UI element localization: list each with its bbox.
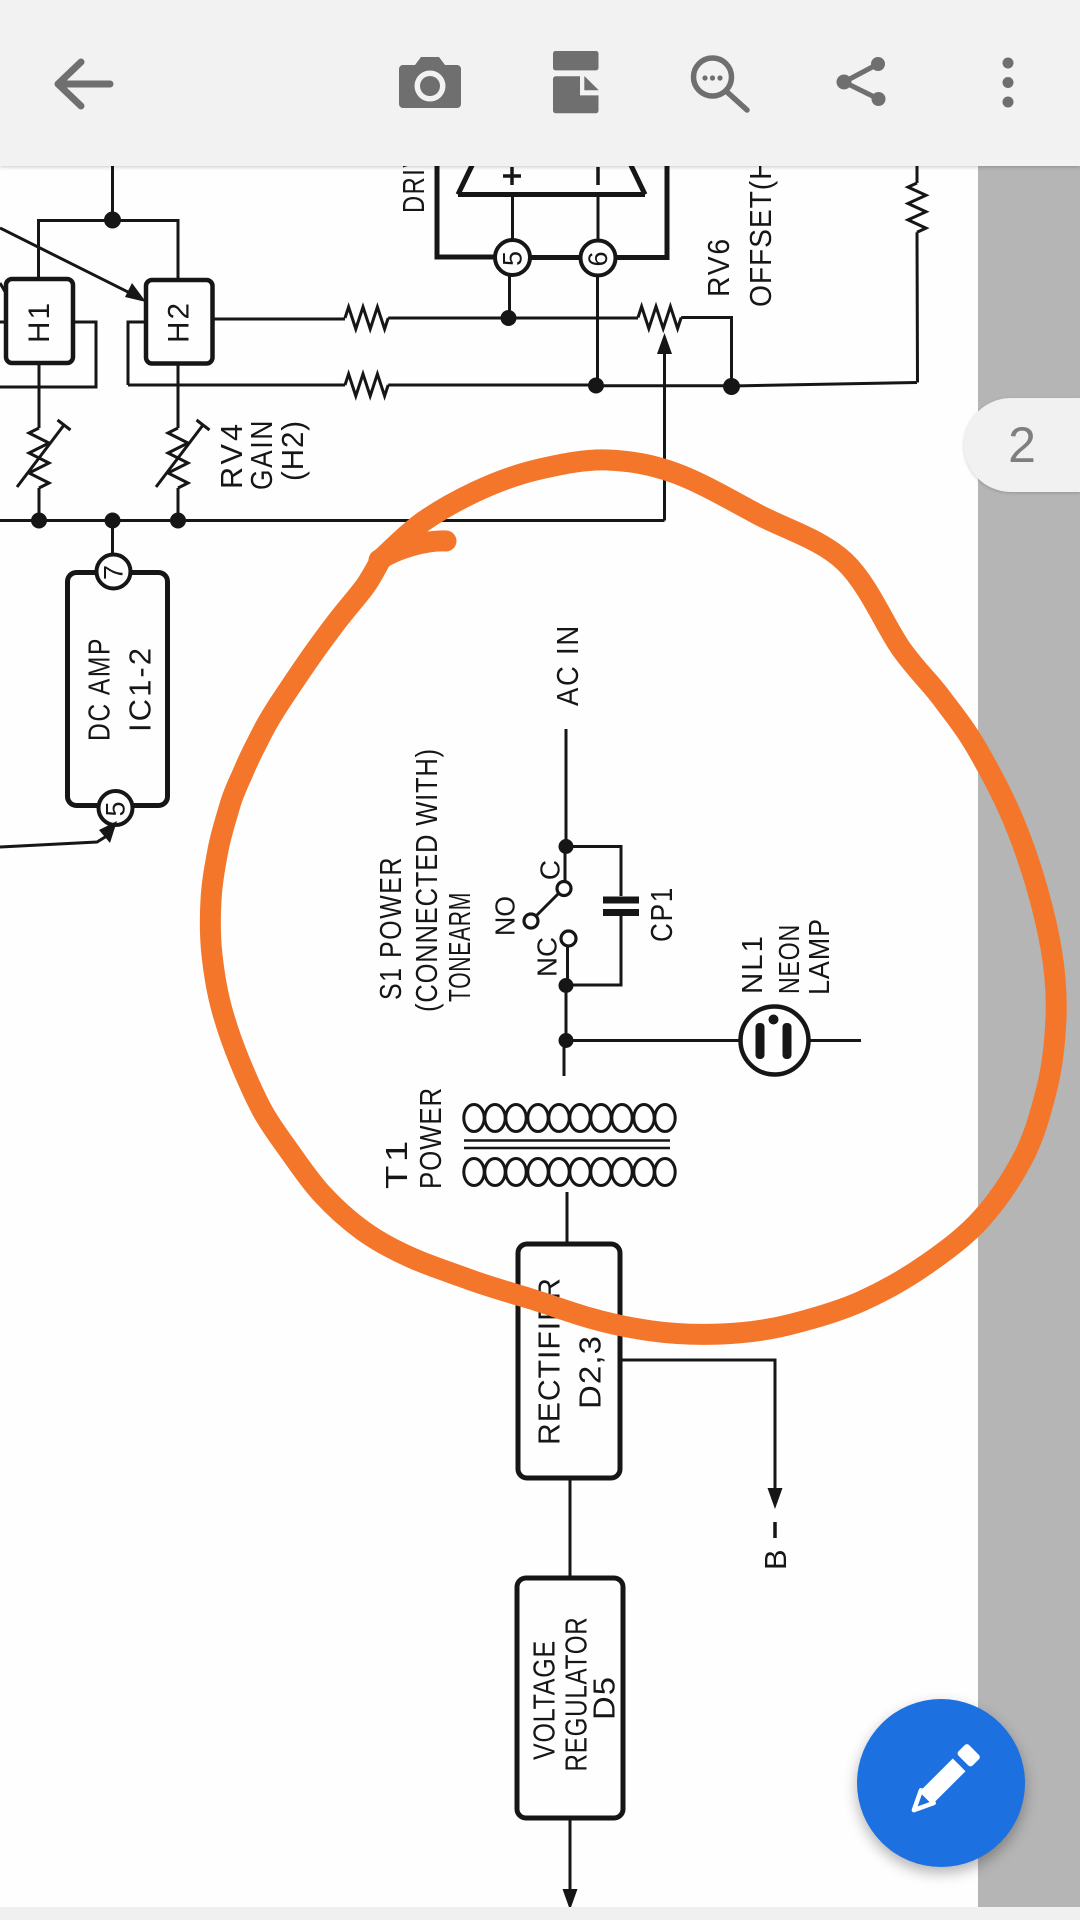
label (H2) (275, 420, 310, 481)
op-amp U1 DC AMP IC1-2 block (68, 573, 168, 806)
svg-text:B: B (758, 1549, 793, 1570)
label LAMP (804, 918, 836, 995)
RV6 wiper arrow (657, 333, 672, 521)
node D junction dot (501, 310, 517, 326)
block H2 (146, 280, 213, 364)
switch S1 NC contact (561, 931, 576, 946)
wire AC IN lead (565, 729, 568, 845)
wire plus input to pin 5 (511, 195, 514, 241)
overflow menu icon (1003, 58, 1014, 108)
svg-text:IC1-2: IC1-2 (123, 646, 158, 732)
bottom navigation strip (0, 1907, 1080, 1920)
wire minus input to pin 6 (597, 195, 600, 241)
svg-text:C: C (535, 860, 566, 880)
svg-text:NC: NC (532, 937, 563, 977)
scrollbar page pill (964, 398, 1080, 492)
neon lamp NL1 (741, 1007, 809, 1075)
wire NC contact to node F (566, 946, 569, 985)
label DRIVE (clipped by toolbar) (396, 133, 431, 213)
transformer T1 secondary coil (464, 1159, 675, 1186)
wire node A to H2 top (113, 221, 179, 281)
svg-text:(H2): (H2) (275, 420, 310, 481)
svg-text:RV6: RV6 (701, 237, 736, 297)
pin 6 circle of drive block (581, 241, 616, 276)
svg-text:OFFSET(H2: OFFSET(H2 (743, 142, 778, 307)
wire H2 bottom to RV4b (177, 364, 180, 429)
svg-text:7: 7 (99, 565, 129, 580)
svg-text:5: 5 (101, 801, 131, 816)
wire H2 left bracket (128, 322, 146, 385)
svg-text:5: 5 (498, 251, 528, 266)
label AC IN (550, 624, 585, 706)
svg-text:NO: NO (490, 896, 521, 936)
label CP 1 (644, 886, 679, 942)
wire lower feedback line (128, 384, 345, 387)
svg-text:H1: H1 (23, 301, 56, 343)
svg-text:NEON: NEON (774, 924, 806, 994)
wire resistor to node B (388, 384, 596, 387)
label NC (532, 937, 563, 977)
arrow fragment pointing to H1 (0, 283, 7, 295)
transformer T1 primary coil (464, 1105, 675, 1132)
wire CP1 bottom to node F (566, 916, 621, 985)
minus input mark (596, 167, 600, 185)
wire node A to H1 top (39, 221, 113, 280)
wire pin6 down to node B (596, 276, 599, 386)
wire H1 bottom to RV4a (38, 363, 41, 428)
label T1 (379, 1137, 414, 1189)
wire transformer to rectifier (566, 1192, 569, 1244)
svg-text:(CONNECTED WITH): (CONNECTED WITH) (409, 748, 444, 1012)
bottom rail wire (0, 519, 665, 522)
drive block border left (437, 150, 495, 257)
label S1 POWER (373, 856, 408, 1000)
junction dot rail x112 (105, 513, 121, 529)
resistor top right vertical (908, 150, 926, 383)
wire H1 right bracket to left edge (0, 322, 96, 387)
wire H2 output line (213, 318, 346, 321)
search icon (694, 58, 748, 110)
svg-text:CP1: CP1 (644, 886, 679, 942)
pin 7 circle (97, 555, 131, 589)
wire node G down to transformer (563, 1041, 566, 1077)
plus input mark (503, 167, 521, 185)
label (CONNECTED WITH) (409, 748, 444, 1012)
node F junction dot (559, 978, 574, 993)
page preview icon (553, 51, 599, 113)
wire node E to capacitor CP1 top (566, 847, 621, 897)
label POWER (413, 1087, 448, 1189)
wire node G to neon lamp (566, 1039, 741, 1042)
junction dot rail x178 (170, 513, 186, 529)
junction dot rail x39 (31, 513, 47, 529)
svg-text:H2: H2 (163, 301, 196, 343)
svg-text:DC AMP: DC AMP (82, 637, 117, 741)
svg-text:VOLTAGE: VOLTAGE (527, 1640, 562, 1760)
drive block border between pins (530, 255, 581, 260)
wire RV4b to bottom rail (177, 488, 180, 521)
switch S1 lever (537, 894, 559, 916)
wire node C to right resistor (732, 383, 918, 387)
resistor in lower line (345, 374, 388, 396)
label C (535, 860, 566, 880)
label NEON (774, 924, 806, 994)
drive block border right (616, 150, 668, 258)
node C junction dot (723, 378, 740, 395)
label B- (758, 1522, 793, 1570)
svg-text:NL1: NL1 (737, 934, 769, 994)
camera icon (399, 57, 461, 108)
label TONEARM (442, 892, 477, 1002)
wire node D to RV6 (509, 317, 639, 320)
wire vertical into node A from top (111, 150, 114, 219)
transformer T1 core (464, 1141, 670, 1149)
voltage regulator D5 block (517, 1578, 623, 1818)
resistor in H2 output line (345, 307, 388, 329)
wire pin5 down to node D (508, 275, 511, 318)
wire RV6 right end down to node C (681, 318, 731, 387)
label RV6 (701, 237, 736, 297)
svg-text:D5: D5 (587, 1676, 622, 1720)
svg-text:LAMP: LAMP (804, 918, 836, 995)
wire with arrow into pin 5 (0, 821, 117, 847)
share icon (844, 64, 879, 99)
switch S1 common contact (557, 882, 571, 896)
switch S1 NO contact (524, 914, 538, 928)
wire rectifier to B- arrow (620, 1360, 783, 1509)
selection arrow pointing to H2 (0, 228, 146, 302)
svg-text:TONEARM: TONEARM (442, 892, 477, 1002)
back arrow icon (58, 62, 110, 106)
label RV 4 (214, 421, 249, 489)
svg-text:GAIN: GAIN (244, 419, 279, 490)
wire regulator output with arrow (563, 1818, 578, 1910)
label NO (490, 896, 521, 936)
wire node B to node C (596, 384, 732, 387)
node E junction dot (559, 839, 574, 854)
wire node F to node G (565, 985, 568, 1040)
label GAIN (244, 419, 279, 490)
wire rectifier to voltage regulator (569, 1478, 572, 1578)
svg-text:T1: T1 (379, 1137, 414, 1189)
variable resistor RV4a zigzag (17, 420, 71, 488)
annotation orange loop (210, 460, 1056, 1335)
svg-text:6: 6 (583, 251, 613, 266)
svg-text:POWER: POWER (413, 1087, 448, 1189)
potentiometer RV6 zigzag (638, 307, 681, 329)
pin 5 circle of DC AMP (99, 791, 133, 825)
node B junction dot (588, 378, 604, 394)
pin 5 circle of drive block (495, 240, 530, 275)
wire H1 left stub (0, 321, 6, 324)
wire rail to pin 7 (111, 521, 114, 555)
label OFFSET (H2) (743, 142, 778, 307)
svg-text:S1 POWER: S1 POWER (373, 856, 408, 1000)
edit FAB with pencil icon (857, 1699, 1025, 1867)
rectifier D2,3 block (518, 1244, 620, 1478)
node G junction dot (559, 1033, 574, 1048)
wire neon lamp right lead (809, 1039, 862, 1042)
variable resistor RV4b zigzag (156, 420, 210, 488)
svg-text:D2,3: D2,3 (573, 1335, 608, 1409)
svg-text:AC IN: AC IN (550, 624, 585, 706)
op-amp triangle DRIVE (458, 150, 645, 195)
wire resistor to node D (388, 317, 508, 320)
label NL 1 (737, 934, 769, 994)
wire RV4a to bottom rail (38, 488, 41, 521)
capacitor CP1 plates (603, 900, 639, 913)
node A junction dot (104, 212, 121, 229)
block H1 (6, 279, 73, 363)
wire node E to switch common (564, 847, 567, 882)
